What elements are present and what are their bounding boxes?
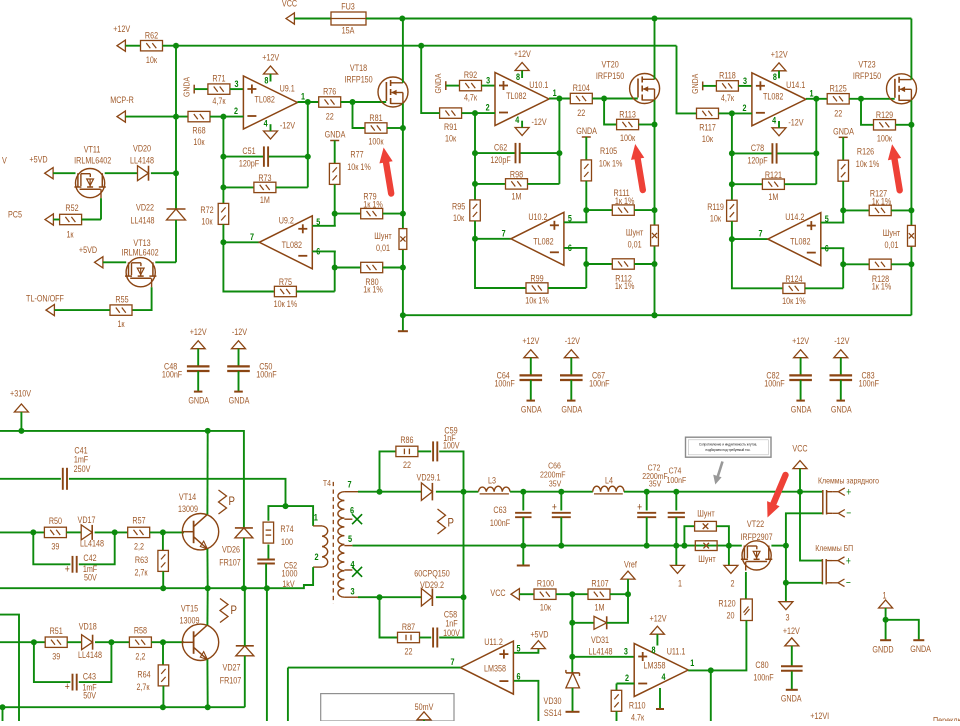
op-amp U10.1 TL082	[495, 73, 549, 126]
junction	[520, 489, 526, 495]
svg-text:FR107: FR107	[220, 676, 242, 686]
svg-text:10к: 10к	[201, 217, 213, 227]
svg-text:10к 1%: 10к 1%	[274, 299, 297, 309]
svg-text:T4: T4	[323, 478, 332, 488]
wire source	[654, 100, 656, 225]
svg-text:0,01: 0,01	[376, 243, 390, 253]
wire return line	[352, 545, 729, 547]
svg-text:10к 1%: 10к 1%	[856, 159, 879, 169]
svg-text:100nF: 100nF	[589, 379, 609, 389]
svg-text:U10.2: U10.2	[528, 212, 548, 222]
junction	[205, 585, 211, 591]
svg-text:4: 4	[661, 672, 665, 682]
svg-text:50V: 50V	[84, 573, 97, 583]
resistor R75 10к 1%	[274, 286, 296, 296]
svg-text:8: 8	[651, 645, 655, 655]
shunt upper	[684, 526, 694, 545]
junction	[601, 96, 607, 102]
svg-text:R110: R110	[629, 701, 646, 711]
wire	[20, 412, 22, 431]
resistor R57 2,2	[128, 527, 150, 537]
wire pin5	[821, 222, 845, 224]
svg-text:VD26: VD26	[222, 545, 240, 555]
junction	[840, 207, 846, 213]
svg-text:GNDD: GNDD	[872, 645, 893, 655]
capacitor C58 1nF 100V	[420, 637, 432, 639]
svg-text:1mF: 1mF	[74, 455, 88, 465]
svg-text:4: 4	[264, 119, 268, 129]
resistor R118 4,7к	[716, 81, 738, 91]
resistor R74 100	[268, 506, 285, 521]
wire	[125, 45, 140, 47]
svg-text:8: 8	[264, 76, 268, 86]
svg-text:+5VD: +5VD	[79, 245, 97, 255]
svg-text:Клеммы БП: Клеммы БП	[815, 543, 853, 553]
svg-text:1к: 1к	[66, 230, 74, 240]
svg-text:2: 2	[486, 103, 490, 113]
wire pin6 U11.2	[514, 681, 539, 721]
svg-text:VD31: VD31	[591, 635, 609, 645]
junction	[644, 543, 650, 549]
svg-text:C42: C42	[83, 553, 97, 563]
wire primary pin2	[267, 567, 313, 588]
svg-text:VT23: VT23	[858, 60, 876, 70]
wire pin7	[732, 238, 768, 240]
wire	[266, 588, 268, 721]
wire	[155, 261, 176, 263]
svg-text:C74: C74	[669, 466, 682, 476]
transistor VT18 IRFP150	[378, 77, 408, 107]
svg-text:+12V: +12V	[650, 614, 667, 624]
transistor VT20 IRFP150	[630, 74, 660, 104]
svg-text:100: 100	[281, 537, 293, 547]
svg-text:R51: R51	[50, 626, 64, 636]
svg-text:TL082: TL082	[533, 237, 554, 247]
svg-text:SS14: SS14	[544, 708, 562, 718]
junction	[332, 211, 338, 217]
junction	[726, 543, 732, 549]
svg-text:7: 7	[347, 479, 351, 490]
red arrow	[637, 157, 643, 190]
wire	[475, 221, 526, 288]
wire	[703, 85, 717, 87]
svg-text:2,2: 2,2	[135, 652, 145, 662]
wire	[223, 224, 274, 291]
power -12V	[772, 128, 786, 136]
svg-text:35V: 35V	[649, 479, 662, 489]
svg-text:Клеммы зарядного: Клеммы зарядного	[818, 476, 880, 486]
wire collector VT14	[206, 431, 208, 515]
svg-text:6: 6	[350, 505, 354, 516]
svg-text:Шунт: Шунт	[883, 228, 901, 238]
junction	[220, 239, 226, 245]
svg-text:100nF: 100nF	[753, 673, 773, 683]
junction	[556, 96, 562, 102]
wire mid bus	[0, 587, 267, 589]
wire	[627, 579, 629, 594]
svg-text:120pF: 120pF	[490, 155, 510, 165]
junction	[583, 207, 589, 213]
capacitor C43 1mF 50V	[34, 642, 71, 682]
wire	[380, 451, 396, 491]
wire	[287, 668, 289, 721]
resistor R87 22	[398, 632, 420, 642]
unused tap X mark	[352, 567, 362, 577]
svg-text:R72: R72	[200, 205, 214, 215]
wire	[358, 491, 380, 493]
ground 3	[779, 602, 793, 610]
svg-text:100nF: 100nF	[490, 518, 510, 528]
svg-text:R129: R129	[876, 110, 894, 120]
capacitor C52 1000 1kV	[267, 545, 269, 560]
transistor VT11 IRLML6402	[76, 169, 105, 198]
svg-text:100nF: 100nF	[256, 370, 276, 380]
resistor R73 1M	[223, 186, 254, 188]
capacitor C83 100nF	[840, 358, 842, 376]
wire output U11.1	[688, 669, 711, 671]
wire emitter VT14	[206, 549, 208, 588]
op-amp U11.1 LM358	[634, 644, 688, 697]
ground GNDA	[837, 400, 846, 402]
capacitor C64 100nF	[530, 358, 532, 376]
junction	[0, 704, 6, 710]
wire base row VT14	[0, 531, 44, 533]
svg-text:GNDA: GNDA	[690, 73, 700, 94]
capacitor C48 100nF	[197, 349, 199, 367]
svg-text:GNDA: GNDA	[910, 644, 931, 654]
transformer T4 core	[332, 482, 334, 604]
svg-text:4,7к: 4,7к	[631, 713, 645, 721]
transformer T4 secondary	[338, 492, 345, 598]
junction	[652, 312, 658, 318]
junction	[673, 489, 679, 495]
svg-text:VD30: VD30	[544, 696, 562, 706]
junction	[220, 114, 226, 120]
inductor L4	[593, 486, 624, 492]
svg-text:50mV: 50mV	[415, 702, 434, 712]
junction	[673, 543, 679, 549]
wire	[624, 491, 800, 493]
svg-text:1M: 1M	[595, 603, 605, 613]
wire left stub	[0, 615, 19, 721]
svg-text:2,7к: 2,7к	[136, 682, 150, 692]
ground	[522, 546, 524, 565]
svg-text:R100: R100	[537, 579, 555, 589]
junction	[652, 207, 658, 213]
svg-text:+5VD: +5VD	[530, 630, 548, 640]
junction	[652, 312, 658, 318]
capacitor C51 120pF	[223, 156, 263, 158]
adjust mark P2	[220, 599, 228, 623]
wire	[222, 117, 224, 204]
junction	[173, 43, 179, 49]
junction	[30, 529, 36, 535]
svg-text:TL082: TL082	[506, 91, 527, 101]
svg-text:−: −	[846, 577, 851, 589]
resistor R120 20	[745, 572, 747, 599]
wire	[436, 596, 464, 598]
svg-text:U11.1: U11.1	[667, 647, 686, 657]
junction	[681, 543, 687, 549]
svg-text:R119: R119	[707, 202, 724, 212]
wire output rail	[464, 491, 479, 493]
inductor L3	[478, 486, 510, 492]
junction	[241, 585, 247, 591]
resistor R58 2,2	[129, 637, 151, 647]
svg-text:R120: R120	[718, 599, 736, 609]
resistor R112 1к 1%	[586, 263, 612, 265]
svg-text:TL082: TL082	[282, 240, 303, 250]
resistor R127 1к 1%	[843, 209, 869, 211]
wire rectifier column	[463, 492, 465, 598]
wire	[150, 531, 184, 533]
svg-text:U14.1: U14.1	[786, 80, 806, 90]
junction	[558, 489, 564, 495]
wire output pin1	[549, 98, 570, 100]
transistor VT22 IRFP2907	[742, 541, 771, 570]
svg-text:1к 1%: 1к 1%	[363, 200, 383, 210]
svg-text:+: +	[846, 487, 851, 499]
svg-text:4: 4	[772, 116, 776, 126]
svg-text:3: 3	[486, 76, 490, 86]
wire output pin1	[298, 101, 319, 103]
svg-text:2: 2	[314, 551, 318, 562]
diode VD17 LL4148	[66, 531, 81, 533]
wire	[103, 261, 126, 263]
transistor VT13 IRLML6402	[126, 258, 155, 287]
svg-text:VD18: VD18	[79, 622, 97, 632]
capacitor C59 1nF 100V	[418, 450, 431, 452]
junction	[160, 585, 166, 591]
svg-text:L4: L4	[605, 476, 613, 486]
wire pin3	[738, 85, 752, 87]
resistor R113 100к	[604, 99, 617, 125]
svg-text:100nF: 100nF	[667, 475, 687, 485]
svg-text:3: 3	[743, 76, 747, 86]
ground GNDA	[194, 391, 203, 393]
svg-text:-12V: -12V	[565, 336, 581, 346]
junction	[583, 261, 589, 267]
svg-text:20: 20	[727, 611, 735, 621]
svg-text:10к: 10к	[540, 603, 552, 613]
svg-text:VCC: VCC	[490, 588, 505, 598]
svg-text:R63: R63	[135, 555, 149, 565]
wire pin6	[564, 247, 588, 249]
svg-text:GNDA: GNDA	[182, 76, 192, 97]
svg-text:PC5: PC5	[8, 210, 22, 220]
svg-text:LM358: LM358	[484, 664, 506, 674]
wire base row VT15	[0, 641, 45, 643]
wire gate VT11	[100, 198, 102, 219]
svg-text:R125: R125	[830, 84, 848, 94]
svg-text:5: 5	[825, 214, 829, 224]
junction	[858, 96, 864, 102]
svg-text:R64: R64	[137, 670, 151, 680]
wire	[558, 99, 560, 184]
svg-text:GNDA: GNDA	[576, 126, 597, 136]
power -12V	[264, 131, 278, 139]
svg-text:4,7к: 4,7к	[212, 96, 226, 106]
svg-text:Шунт: Шунт	[698, 554, 716, 564]
svg-text:U9.1: U9.1	[280, 84, 296, 94]
svg-text:6: 6	[316, 247, 320, 257]
junction	[18, 428, 24, 434]
svg-text:+: +	[552, 502, 557, 514]
svg-text:+12V: +12V	[771, 50, 788, 60]
pin4 stub	[659, 688, 661, 709]
junction	[569, 591, 575, 597]
wire drain	[402, 19, 404, 83]
wire	[510, 491, 593, 493]
svg-text:2: 2	[234, 106, 238, 116]
wire	[719, 112, 732, 114]
junction	[400, 211, 406, 217]
svg-text:GNDA: GNDA	[325, 130, 346, 140]
svg-text:R58: R58	[134, 626, 148, 636]
junction	[160, 529, 166, 535]
resistor R71 4,7к	[208, 84, 230, 94]
svg-text:1: 1	[882, 591, 886, 601]
red arrow VT22	[773, 475, 786, 506]
svg-text:R113: R113	[619, 110, 636, 120]
wire	[175, 46, 177, 174]
junction	[108, 639, 114, 645]
transistor VT14 13009	[182, 514, 218, 550]
svg-text:10к: 10к	[193, 137, 205, 147]
resistor R77 10к 1%	[329, 163, 340, 184]
wire	[519, 593, 534, 595]
junction	[644, 489, 650, 495]
svg-text:R95: R95	[452, 202, 466, 212]
svg-text:V: V	[2, 156, 7, 166]
junction	[558, 543, 564, 549]
capacitor C74 100nF	[675, 492, 677, 511]
wire	[474, 113, 476, 200]
wire	[210, 116, 223, 118]
svg-text:R99: R99	[530, 274, 544, 284]
junction	[332, 265, 338, 271]
wire pin6	[821, 247, 845, 249]
junction	[160, 704, 166, 710]
svg-text:10к: 10к	[453, 213, 465, 223]
svg-text:R68: R68	[192, 126, 206, 136]
wire	[639, 124, 655, 126]
svg-text:7: 7	[450, 657, 454, 667]
wire	[585, 181, 587, 222]
svg-text:+5VD: +5VD	[29, 155, 47, 165]
junction	[908, 207, 914, 213]
wire input bus	[176, 45, 677, 47]
wire pin3	[230, 88, 244, 90]
svg-text:1M: 1M	[260, 195, 270, 205]
svg-text:4,7к: 4,7к	[464, 93, 478, 103]
wire	[53, 219, 59, 221]
junction	[264, 585, 270, 591]
junction	[461, 489, 467, 495]
junction	[729, 236, 735, 242]
wire to charger minus	[786, 513, 823, 545]
wire	[105, 172, 138, 174]
svg-text:100nF: 100nF	[859, 379, 879, 389]
wire	[334, 251, 336, 291]
shunt lower	[695, 541, 717, 551]
gray arrow	[717, 462, 722, 479]
svg-text:LM358: LM358	[644, 661, 666, 671]
svg-text:100V: 100V	[443, 441, 460, 451]
svg-text:LL4148: LL4148	[78, 650, 102, 660]
svg-text:39: 39	[52, 652, 60, 662]
svg-text:+12V: +12V	[113, 24, 130, 34]
svg-text:VT20: VT20	[602, 60, 620, 70]
annotation box 50mV	[321, 694, 454, 721]
svg-text:2: 2	[625, 673, 629, 683]
svg-text:10к 1%: 10к 1%	[782, 296, 805, 306]
junction	[569, 620, 575, 626]
svg-text:10к 1%: 10к 1%	[525, 296, 548, 306]
wire bottom bus	[3, 706, 245, 708]
svg-text:VT14: VT14	[179, 492, 197, 502]
junction	[652, 261, 658, 267]
junction	[31, 639, 37, 645]
junction	[556, 150, 562, 156]
wire gate VT13	[132, 287, 151, 310]
junction	[173, 170, 179, 176]
svg-text:22: 22	[577, 108, 585, 118]
wire pin5 U11.2	[514, 649, 539, 653]
wire	[710, 670, 712, 721]
junction	[305, 99, 311, 105]
svg-text:100V: 100V	[443, 628, 460, 638]
svg-text:-12V: -12V	[788, 118, 804, 128]
svg-text:R92: R92	[464, 70, 478, 80]
wire VCC bus	[366, 18, 911, 20]
wire emitter VT15	[206, 660, 208, 708]
wire	[341, 101, 387, 103]
svg-text:+310V: +310V	[10, 389, 31, 399]
wire	[151, 172, 176, 174]
svg-text:C63: C63	[493, 505, 507, 515]
junction	[400, 125, 406, 131]
red arrow	[386, 160, 392, 193]
svg-text:1nF: 1nF	[445, 619, 457, 629]
junction	[472, 110, 478, 116]
resistor R100 10к	[534, 589, 556, 599]
svg-text:C51: C51	[242, 146, 256, 156]
svg-text:5: 5	[568, 214, 572, 224]
svg-text:1к 1%: 1к 1%	[872, 282, 892, 292]
svg-text:1M: 1M	[768, 192, 778, 202]
transistor VT15 13009	[182, 624, 218, 660]
wire	[815, 99, 817, 184]
junction	[205, 704, 211, 710]
wire	[849, 98, 895, 100]
junction	[350, 99, 356, 105]
svg-text:R105: R105	[600, 146, 618, 156]
wire	[785, 546, 787, 602]
svg-text:22: 22	[403, 460, 411, 470]
svg-text:100к: 100к	[877, 134, 893, 144]
svg-text:GNDA: GNDA	[791, 405, 812, 415]
wire	[799, 469, 801, 492]
wire pin7	[475, 238, 511, 240]
diode VD29.1	[380, 491, 422, 493]
wire pin2	[223, 116, 243, 118]
resistor R81 100к	[353, 102, 366, 128]
wire drain	[910, 19, 912, 80]
svg-text:LL4148: LL4148	[131, 216, 155, 226]
wire	[842, 248, 844, 288]
svg-text:GNDA: GNDA	[188, 396, 209, 406]
